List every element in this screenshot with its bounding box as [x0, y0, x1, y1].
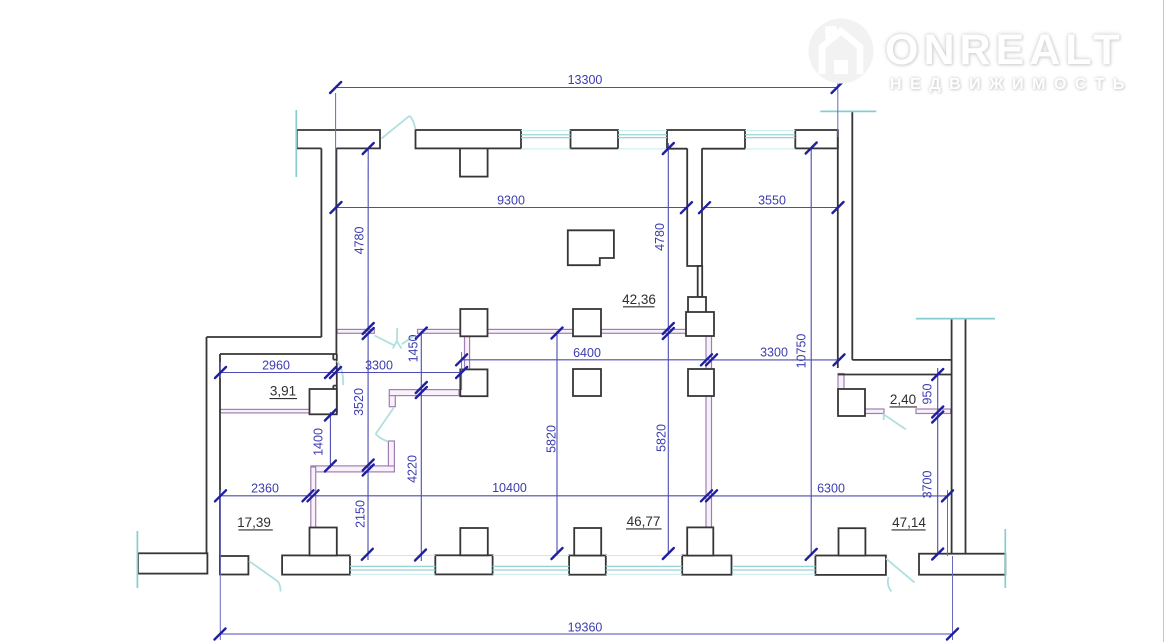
- wall pier P3: [571, 130, 619, 148]
- room 2.40 bottom wall left: [865, 409, 884, 414]
- room 2.40 bottom wall right: [916, 409, 951, 414]
- dimension line 950 / 3700: [937, 368, 939, 554]
- column stub S9: [310, 528, 337, 556]
- left wall of top section: [321, 148, 336, 354]
- logo ONREALT watermark: [800, 10, 1160, 110]
- dimension line 1400: [329, 412, 331, 468]
- bottom wall pier PB1: [220, 556, 248, 575]
- bathroom top wall B: [389, 390, 459, 396]
- wall below P4 thin: [698, 266, 703, 297]
- tick 2150 ends: [362, 549, 373, 560]
- bottom wall pier PB2: [282, 555, 350, 574]
- bottom wall pier PB4: [569, 556, 606, 575]
- wall pier P4: [667, 130, 745, 149]
- column S7 room 3.91: [310, 389, 337, 414]
- tick 6300 right end: [942, 490, 953, 501]
- partition wall E hall: [311, 466, 394, 472]
- dimension line 3550: [705, 207, 839, 209]
- tick 1400 ends: [325, 410, 336, 472]
- column S5: [573, 369, 601, 396]
- svg-text:3300: 3300: [760, 346, 788, 360]
- column stub S11: [574, 528, 601, 556]
- door D2 double door corridor: [375, 328, 415, 349]
- svg-text:13300: 13300: [568, 73, 603, 87]
- wall pier P5: [795, 130, 838, 148]
- tick 3550 ends: [699, 202, 844, 213]
- dimension line 2360: [221, 495, 311, 497]
- column stub under P2: [460, 148, 488, 176]
- right wall of top section: [838, 111, 853, 368]
- dimension line 4780 right / 5820 right: [667, 143, 669, 554]
- dimension line 9300: [336, 207, 687, 209]
- window W2 top wall: [618, 135, 667, 138]
- svg-text:2360: 2360: [251, 482, 279, 496]
- door D7 bottom wall right leaf: [886, 559, 915, 592]
- dimension line 2960: [221, 372, 334, 374]
- tick 3300 left right end: [456, 367, 467, 378]
- tick 6400 ends double right: [456, 354, 717, 365]
- svg-text:10400: 10400: [492, 481, 527, 495]
- column S4: [460, 369, 487, 396]
- svg-text:6300: 6300: [817, 482, 845, 496]
- partition wall A left of double door: [337, 329, 374, 333]
- tick 2360 left end: [215, 490, 226, 501]
- svg-text:2,40: 2,40: [890, 392, 916, 407]
- window sill mark bottom-right: [1004, 529, 1006, 588]
- room 3.91 right wall with door jambs: [333, 354, 337, 413]
- top wall of lower-left section: [207, 337, 337, 354]
- svg-text:42,36: 42,36: [622, 292, 656, 307]
- dimension line 6300: [709, 495, 948, 497]
- tick 10400 ends double: [303, 490, 718, 501]
- wall pier P2: [416, 130, 522, 148]
- svg-text:3700: 3700: [921, 471, 935, 499]
- svg-text:4220: 4220: [406, 455, 420, 483]
- column S6: [688, 369, 714, 396]
- tick 4220 bottom: [415, 550, 426, 561]
- door D4 bathroom leaf: [376, 408, 394, 442]
- window sill mark bottom-left: [136, 531, 138, 588]
- dimension line 6400: [462, 359, 709, 361]
- tick 4780 left top and bottom double: [363, 143, 374, 339]
- left outer wall: [207, 337, 221, 575]
- svg-text:2960: 2960: [262, 359, 290, 373]
- bathroom door jamb C: [389, 396, 395, 407]
- dimension line 1450 / 4220: [420, 331, 422, 561]
- bottom wall pier PB6: [815, 556, 886, 575]
- svg-text:47,14: 47,14: [892, 515, 926, 530]
- extension line 19360 right: [952, 556, 954, 640]
- svg-text:46,77: 46,77: [627, 514, 661, 529]
- extension line 6300 right: [947, 490, 949, 556]
- bottom wall pier PB0 far left: [138, 553, 207, 573]
- partition stub G: [465, 334, 470, 370]
- bottom wall pier PB3: [435, 555, 492, 574]
- column S2: [573, 309, 601, 336]
- door D5 room 2.40 leaf: [884, 414, 906, 430]
- partition stub room 2.40: [838, 374, 844, 390]
- tick 5820 left ends: [552, 328, 563, 560]
- door D3 room 3.91 arc: [337, 361, 343, 385]
- dimension line 10750: [810, 148, 812, 554]
- svg-text:3520: 3520: [352, 388, 366, 416]
- svg-text:3300: 3300: [365, 359, 393, 373]
- svg-text:4780: 4780: [353, 227, 367, 255]
- svg-text:3,91: 3,91: [270, 384, 296, 399]
- window WB2 bottom wall: [493, 566, 569, 570]
- extension line 13300 right: [837, 81, 839, 137]
- svg-text:19360: 19360: [568, 621, 603, 635]
- svg-text:1400: 1400: [312, 428, 326, 456]
- tick 5820 right bottom: [663, 548, 674, 559]
- partition wall I below room 3.91: [220, 409, 310, 413]
- tick 13300 ends: [330, 82, 843, 93]
- window sill mark top-right horizontal: [820, 110, 876, 112]
- dimension line 3300 right: [709, 359, 839, 361]
- window WB1 bottom wall: [350, 566, 435, 570]
- svg-text:3550: 3550: [758, 194, 786, 208]
- door D1 top-left leaf: [382, 116, 416, 139]
- dimension line 10400: [311, 495, 710, 497]
- tick 2960 ends double right: [215, 367, 341, 378]
- svg-text:5820: 5820: [655, 424, 669, 452]
- extension line x462: [461, 352, 463, 390]
- dimension line 3300 left: [333, 372, 462, 374]
- tick 19360 ends: [215, 629, 959, 640]
- svg-text:10750: 10750: [795, 334, 809, 369]
- window W1 top wall: [521, 135, 571, 138]
- extension line 19360 left: [219, 490, 221, 640]
- tick 1450 top and bottom double: [416, 328, 427, 399]
- svg-text:5820: 5820: [545, 425, 559, 453]
- partition wall H vertical: [706, 336, 712, 528]
- window sill mark right horizontal: [916, 318, 995, 320]
- partition wall J vertical: [311, 467, 316, 528]
- dimension line 13300: [336, 87, 837, 89]
- page right edge line: [1163, 0, 1165, 642]
- column S8 room 2.40: [838, 389, 865, 416]
- wall below P4 lower: [688, 297, 706, 313]
- door D6 bottom wall left leaf: [249, 561, 281, 592]
- svg-text:17,39: 17,39: [237, 515, 271, 530]
- right outer wall: [952, 319, 966, 556]
- bathroom door jamb D: [388, 441, 394, 466]
- dimension line 19360: [220, 633, 953, 635]
- column stub S13: [839, 528, 866, 555]
- tick 3520 bottom double: [363, 460, 374, 476]
- window WB4 bottom wall: [732, 566, 815, 570]
- notched column N1 in room 42.36: [568, 230, 614, 265]
- tick 3700 bottom: [932, 549, 943, 560]
- svg-text:1450: 1450: [407, 335, 421, 363]
- window sill mark left of P1: [295, 110, 297, 177]
- bottom wall pier PB5: [682, 556, 731, 575]
- column stub S10: [460, 528, 488, 555]
- column S3: [686, 312, 714, 336]
- tick 3300 right end: [834, 354, 845, 365]
- svg-text:2150: 2150: [354, 500, 368, 528]
- svg-text:6400: 6400: [573, 346, 601, 360]
- dimension line 5820 left: [556, 331, 558, 554]
- tick 4780 right top and bottom double: [663, 143, 674, 339]
- tick 9300 ends: [331, 202, 692, 213]
- tick 10750 ends: [806, 143, 817, 560]
- svg-text:4780: 4780: [653, 223, 667, 251]
- window W3 top wall: [745, 135, 795, 138]
- window WB3 bottom wall: [606, 566, 682, 570]
- wall below P4 upper: [687, 148, 702, 266]
- svg-text:950: 950: [921, 384, 935, 405]
- dimension line 4780 left / 3520: [367, 149, 369, 561]
- svg-text:9300: 9300: [497, 194, 525, 208]
- bottom wall pier PB7: [919, 554, 1005, 575]
- column stub S12: [687, 527, 713, 555]
- extension line 2960 left: [219, 362, 221, 378]
- column S1: [460, 309, 487, 336]
- wall pier P1 top-left: [297, 130, 380, 148]
- wall between right rooms: [838, 360, 952, 375]
- tick 950 top and bottom double: [932, 369, 943, 423]
- extension line 13300 left: [335, 93, 337, 210]
- partition wall A right of double door: [418, 329, 688, 333]
